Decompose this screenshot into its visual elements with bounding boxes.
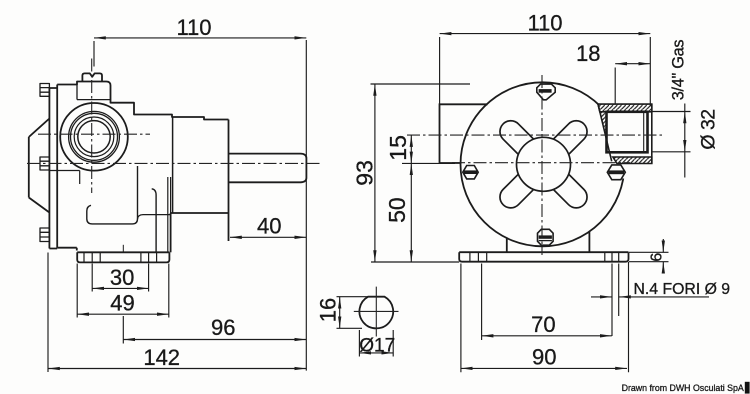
dim 70: extension line: [481, 264, 483, 341]
dim Ø32: extension lines: [653, 112, 691, 152]
boss top chord: [77, 85, 110, 100]
dim Ø17: extension lines: [359, 330, 393, 357]
dim 110 left: line: [94, 37, 306, 39]
dim 49: extension lines: [77, 264, 169, 318]
dim 18: extension line: [614, 68, 616, 105]
port mask over circle arc: [599, 103, 635, 179]
foot left view: [77, 252, 169, 262]
dim 40: line: [230, 236, 306, 238]
dim 96: line: [123, 339, 306, 341]
scan mark bottom right: [745, 382, 750, 394]
port bottom hatched flange: [613, 157, 652, 164]
svg-text:15: 15: [385, 135, 411, 161]
impeller lobe up-right: [546, 116, 592, 162]
dim 110 right: line: [440, 33, 651, 35]
screw bottom: [538, 229, 554, 245]
port axis centerline: [407, 134, 663, 136]
dim 50: line: [410, 163, 412, 262]
svg-text:40: 40: [257, 213, 281, 238]
dim 90: line: [461, 367, 627, 369]
impeller lobe down-right: [546, 167, 592, 213]
impeller lobes: [495, 116, 591, 212]
foot slot ticks: [84, 252, 157, 262]
dim 6: extension lines: [629, 252, 669, 261]
svg-text:49: 49: [110, 291, 134, 316]
internal step branch: [138, 215, 171, 219]
top cap screw with slot: [82, 73, 102, 81]
dim N.4 FORI: leader arrows: [591, 296, 612, 298]
impeller lobe up-left: [495, 116, 541, 162]
port top hatched flange: [598, 104, 652, 112]
flange bolt bottom: [40, 228, 49, 242]
shaft centerline: [27, 162, 322, 164]
impeller hub: [517, 137, 571, 191]
dim 90: extension lines: [461, 262, 629, 372]
vertical centerline right view: [541, 75, 543, 255]
port ring 3: [74, 117, 114, 157]
port left wall slant: [598, 104, 612, 161]
shaft section D-circle: [359, 297, 393, 329]
svg-text:110: 110: [527, 10, 562, 35]
shaft: [229, 154, 307, 183]
port bore square: [607, 112, 648, 153]
dim 16: line: [339, 297, 341, 329]
svg-text:93: 93: [351, 160, 377, 186]
section face lines: [168, 177, 171, 252]
port vertical centerline: [91, 59, 93, 194]
dim 142: extension line: [47, 253, 49, 373]
internal bracket step: [87, 166, 138, 224]
foot right view: [459, 252, 628, 262]
port ring inner: [71, 113, 118, 160]
threaded discharge port: [598, 103, 652, 179]
dim 18: line: [615, 63, 650, 65]
shaft axis centerline right view: [452, 162, 630, 164]
mounting flange plate: [49, 85, 57, 249]
dim 15: line: [410, 135, 412, 163]
svg-text:30: 30: [110, 265, 134, 290]
dim Ø32: line: [684, 112, 686, 152]
screw right: [607, 165, 625, 180]
dim 110 right: extension lines: [440, 37, 651, 106]
dim 110 left: extension lines: [93, 41, 95, 67]
dim 70: line: [482, 335, 612, 337]
casing seam line: [172, 117, 174, 213]
centerlines right view: [407, 75, 663, 255]
port bore: [78, 121, 110, 153]
dim 93: line: [374, 84, 376, 262]
impeller lobe down-left: [495, 167, 541, 213]
pump body outline: [57, 82, 228, 120]
svg-text:96: 96: [211, 315, 235, 340]
svg-text:6: 6: [649, 253, 666, 262]
svg-text:110: 110: [176, 15, 211, 40]
svg-text:16: 16: [316, 298, 341, 322]
port outer right edge: [651, 104, 653, 163]
pump front circle: [461, 82, 625, 246]
svg-text:3/4" Gas: 3/4" Gas: [670, 40, 688, 101]
pedestal sides: [507, 232, 590, 253]
side bracket: [29, 119, 50, 213]
dim 6: arrows outside: [662, 239, 664, 252]
port thread line: [643, 113, 645, 151]
svg-text:90: 90: [532, 345, 556, 370]
dim 30: line: [92, 287, 148, 289]
shaft section crosshair: [354, 287, 399, 337]
dim N.4 FORI: extension lines: [612, 264, 619, 337]
svg-text:18: 18: [576, 41, 600, 66]
cover screws: [463, 84, 626, 245]
centerlines left view: [27, 59, 322, 194]
svg-text:Drawn from DWH Osculati SpA: Drawn from DWH Osculati SpA: [622, 383, 744, 393]
port wall hatched wedge: [600, 112, 607, 140]
dim Ø17: line: [359, 352, 393, 354]
foot slot ticks right view: [470, 252, 619, 262]
side port box: [440, 104, 488, 163]
svg-text:N.4 FORI Ø 9: N.4 FORI Ø 9: [634, 281, 731, 298]
port ring outer: [69, 111, 120, 162]
svg-text:Ø17: Ø17: [359, 335, 395, 356]
dim 96: extension line: [122, 316, 124, 344]
dim 16: extension lines: [337, 297, 370, 329]
internal chamber line: [50, 171, 80, 185]
screw top: [537, 84, 555, 100]
dim 142: line: [48, 368, 306, 370]
svg-text:50: 50: [384, 197, 410, 223]
dim 49: line: [77, 313, 169, 315]
flange bolt top: [40, 84, 49, 242]
svg-text:70: 70: [531, 312, 555, 337]
port horizontal centerline: [38, 133, 150, 135]
flange bolt middle: [40, 157, 49, 170]
foot centre tick: [122, 245, 124, 252]
bearing housing bottom: [171, 212, 229, 214]
screw left: [463, 166, 478, 179]
internal joint hook line: [152, 189, 156, 253]
dim 30: extension lines: [92, 264, 148, 292]
svg-text:Ø 32: Ø 32: [698, 109, 720, 149]
svg-text:142: 142: [143, 345, 180, 370]
body rear lower edge: [170, 213, 172, 252]
dim 15: extension tick: [402, 162, 455, 164]
end cover face: [228, 120, 230, 242]
dim 93: extension lines: [371, 84, 471, 262]
inlet port boss outer circle: [60, 103, 128, 171]
body bottom left: [57, 248, 77, 251]
